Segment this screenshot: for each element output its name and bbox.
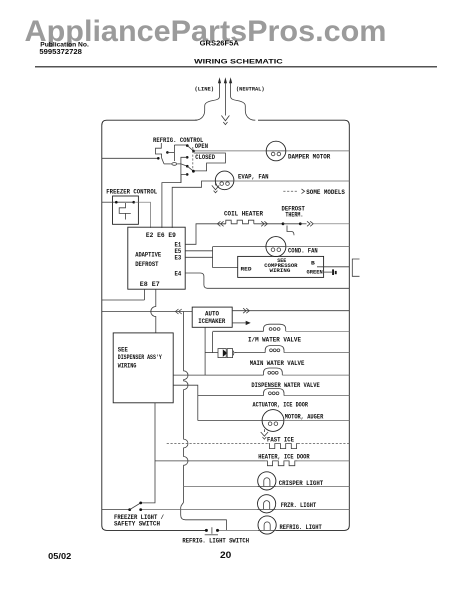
svg-text:(LINE): (LINE) [195, 85, 215, 92]
svg-text:MOTOR, AUGER: MOTOR, AUGER [285, 414, 324, 421]
svg-text:CRISPER LIGHT: CRISPER LIGHT [279, 480, 324, 487]
svg-text:I/M WATER VALVE: I/M WATER VALVE [248, 337, 301, 344]
svg-text:ICEMAKER: ICEMAKER [198, 318, 225, 325]
svg-text:E4: E4 [175, 270, 182, 277]
svg-text:THERM.: THERM. [285, 212, 303, 219]
svg-text:SEE: SEE [118, 346, 128, 353]
svg-text:WIRING: WIRING [118, 362, 137, 369]
svg-text:SAFETY SWITCH: SAFETY SWITCH [114, 520, 160, 527]
svg-text:DAMPER MOTOR: DAMPER MOTOR [288, 154, 331, 161]
svg-text:DEFROST: DEFROST [135, 261, 159, 268]
svg-text:5995372728: 5995372728 [39, 49, 82, 56]
svg-text:ACTUATOR, ICE DOOR: ACTUATOR, ICE DOOR [253, 402, 309, 409]
svg-text:OPEN: OPEN [195, 143, 209, 150]
svg-text:COND. FAN: COND. FAN [288, 248, 318, 255]
svg-text:RED: RED [241, 266, 253, 273]
svg-text:REFRIG. LIGHT SWITCH: REFRIG. LIGHT SWITCH [182, 537, 249, 544]
svg-text:(NEUTRAL): (NEUTRAL) [236, 86, 265, 93]
svg-text:COIL HEATER: COIL HEATER [224, 210, 263, 217]
svg-text:Publication No.: Publication No. [40, 41, 89, 48]
svg-text:20: 20 [220, 550, 231, 560]
svg-text:AUTO: AUTO [205, 311, 219, 318]
svg-text:FREEZER CONTROL: FREEZER CONTROL [106, 189, 157, 196]
svg-text:GREEN: GREEN [307, 268, 323, 275]
svg-text:ADAPTIVE: ADAPTIVE [135, 252, 161, 259]
svg-text:DISPENSER ASS'Y: DISPENSER ASS'Y [118, 354, 162, 361]
svg-text:EVAP, FAN: EVAP, FAN [238, 173, 269, 180]
svg-text:WIRING: WIRING [270, 267, 291, 274]
svg-text:E2 E6 E9: E2 E6 E9 [146, 232, 176, 239]
svg-text:E8 E7: E8 E7 [140, 281, 160, 288]
svg-text:GRS26F5A: GRS26F5A [200, 40, 239, 47]
svg-text:FAST ICE: FAST ICE [267, 436, 294, 443]
svg-text:SOME MODELS: SOME MODELS [306, 189, 345, 196]
svg-text:05/02: 05/02 [48, 552, 72, 561]
svg-text:FRZR. LIGHT: FRZR. LIGHT [281, 502, 317, 509]
svg-text:HEATER, ICE DOOR: HEATER, ICE DOOR [258, 453, 310, 460]
svg-text:CLOSED: CLOSED [195, 154, 215, 161]
svg-text:DISPENSER WATER VALVE: DISPENSER WATER VALVE [251, 382, 320, 389]
svg-text:REFRIG. LIGHT: REFRIG. LIGHT [280, 524, 323, 531]
svg-text:MAIN WATER VALVE: MAIN WATER VALVE [250, 360, 305, 367]
svg-text:WIRING SCHEMATIC: WIRING SCHEMATIC [194, 59, 283, 66]
svg-text:E3: E3 [175, 255, 182, 262]
